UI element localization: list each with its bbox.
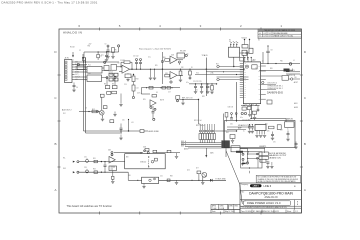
svg-text:Date:: Date: [212, 210, 216, 213]
svg-text:VD: VD [244, 63, 246, 65]
svg-text:IN R: IN R [63, 168, 66, 170]
svg-text:T. LEE: T. LEE [212, 208, 216, 210]
svg-text:(BOARD OUT): (BOARD OUT) [269, 157, 281, 160]
svg-text:R40: R40 [265, 124, 268, 126]
svg-text:1: 1 [280, 24, 282, 28]
svg-text:DAN2550 PRO MAIN REV 0.SCH-1 -: DAN2550 PRO MAIN REV 0.SCH-1 - Thu May 1… [2, 1, 98, 5]
svg-text:R8: R8 [104, 84, 106, 86]
svg-text:OR: OR [258, 71, 260, 73]
svg-text:Q3: Q3 [85, 108, 87, 110]
svg-text:1: 1 [73, 60, 74, 62]
svg-text:1 / 1: 1 / 1 [295, 211, 298, 213]
svg-text:ANALOG IN: ANALOG IN [63, 31, 82, 35]
svg-text:DG: DG [244, 93, 246, 95]
svg-text:1K: 1K [191, 67, 193, 69]
svg-text:C33: C33 [84, 167, 87, 169]
svg-text:C67: C67 [280, 130, 283, 132]
svg-text:L2: L2 [262, 61, 264, 63]
svg-text:2K2: 2K2 [63, 113, 66, 115]
svg-text:REL DRV: REL DRV [180, 51, 186, 53]
svg-text:C: C [304, 96, 307, 100]
svg-text:+15V: +15V [88, 44, 91, 46]
svg-text:B: B [259, 36, 260, 38]
svg-text:Company:: Company: [241, 184, 249, 186]
svg-text:IN L: IN L [63, 158, 66, 160]
svg-text:5: 5 [73, 70, 74, 72]
svg-text:R44: R44 [226, 132, 229, 134]
svg-text:C35: C35 [255, 68, 258, 70]
svg-text:VCC: VCC [196, 73, 199, 75]
svg-text:R19: R19 [143, 99, 146, 101]
svg-text:NO CONNECTION PROPERLY THE BOA: NO CONNECTION PROPERLY THE BOARD A FLOW [258, 176, 297, 179]
svg-text:MC: MC [244, 76, 246, 78]
svg-text:C9: C9 [271, 50, 273, 52]
svg-text:Title:: Title: [241, 190, 245, 193]
svg-text:C36: C36 [294, 77, 297, 79]
svg-text:0.7: 0.7 [264, 36, 266, 38]
svg-text:GN: GN [258, 89, 260, 91]
svg-text:DOUT_FLT x2: DOUT_FLT x2 [268, 82, 278, 84]
svg-text:BUS_A: BUS_A [181, 140, 186, 143]
svg-text:C31: C31 [84, 157, 87, 159]
svg-text:CK: CK [244, 67, 246, 69]
svg-text:BY: DAN LINE: BY: DAN LINE [253, 210, 263, 213]
svg-text:MUTE: MUTE [160, 100, 164, 102]
svg-text:0.1u: 0.1u [240, 117, 243, 119]
svg-text:Q10: Q10 [187, 170, 190, 172]
svg-text:APVD: APVD [212, 204, 217, 207]
svg-text:ORIGINAL RELEASE: ORIGINAL RELEASE [273, 32, 287, 35]
svg-text:B: B [304, 142, 306, 146]
svg-text:D. KIM: D. KIM [220, 208, 225, 210]
svg-text:6: 6 [78, 24, 80, 28]
svg-text:C21 C22 C23: C21 C22 C23 [193, 81, 202, 83]
svg-text:BUS_B: BUS_B [181, 143, 186, 145]
svg-text:4: 4 [159, 24, 161, 28]
svg-text:0.1u: 0.1u [186, 82, 189, 84]
svg-text:20K: 20K [267, 131, 270, 133]
svg-text:May 17, 2001: May 17, 2001 [225, 211, 235, 213]
svg-text:SSM2142: SSM2142 [140, 162, 146, 164]
svg-text:10K: 10K [110, 74, 113, 76]
svg-text:FB2: FB2 [88, 46, 91, 48]
svg-text:R7: R7 [123, 60, 125, 62]
svg-text:AGND DGND: AGND DGND [149, 130, 160, 133]
svg-text:C3: C3 [105, 44, 107, 46]
svg-text:AVDD: AVDD [294, 102, 298, 105]
svg-text:K2: K2 [258, 40, 260, 42]
svg-text:FL2: FL2 [88, 73, 91, 75]
svg-text:4K7: 4K7 [196, 168, 199, 170]
svg-text:J4: J4 [293, 60, 295, 62]
svg-text:R12: R12 [92, 109, 95, 111]
svg-text:LM4871: LM4871 [259, 146, 267, 148]
svg-text:A: A [54, 188, 56, 192]
svg-text:B: B [294, 186, 296, 188]
svg-text:Sheet: Sheet [287, 210, 292, 213]
svg-text:C17: C17 [168, 92, 171, 94]
svg-text:R26: R26 [270, 68, 273, 70]
svg-text:R9: R9 [112, 84, 114, 86]
svg-text:TE: TE [244, 95, 246, 97]
svg-text:C61: C61 [230, 124, 233, 126]
svg-text:C14: C14 [136, 88, 139, 90]
svg-text:C: C [54, 96, 57, 100]
svg-text:FL: FL [259, 76, 261, 78]
svg-text:FR: FR [258, 79, 260, 81]
svg-text:B: B [297, 204, 299, 206]
svg-text:C11 C12: C11 C12 [133, 56, 139, 58]
svg-text:LR: LR [244, 74, 246, 76]
svg-text:U3A: U3A [171, 54, 174, 57]
svg-text:J5: J5 [232, 143, 234, 145]
svg-text:AUX OUT 2: AUX OUT 2 [62, 109, 71, 112]
svg-text:CHKD: CHKD [220, 205, 225, 207]
svg-text:VR: VR [244, 88, 246, 90]
svg-text:1u: 1u [243, 131, 245, 133]
svg-text:DAV9876-55-D: DAV9876-55-D [267, 92, 283, 95]
svg-text:FL1: FL1 [88, 65, 91, 67]
svg-text:VC: VC [258, 84, 260, 86]
svg-text:0.5: 0.5 [264, 33, 266, 35]
svg-text:R38: R38 [170, 176, 173, 178]
svg-text:R31: R31 [93, 158, 96, 160]
svg-text:AOUT: AOUT [294, 81, 298, 84]
svg-text:2.2K: 2.2K [120, 60, 123, 62]
svg-text:RP1 10K x 7: RP1 10K x 7 [196, 125, 205, 127]
svg-text:U3B: U3B [165, 73, 168, 75]
svg-text:3: 3 [200, 24, 202, 28]
svg-text:Q8: Q8 [242, 53, 244, 55]
svg-text:C70: C70 [273, 142, 276, 144]
svg-text:R16: R16 [163, 57, 166, 59]
svg-text:DWG NO: 35-00-0125: DWG NO: 35-00-0125 [263, 211, 279, 213]
svg-text:R15: R15 [155, 65, 158, 67]
svg-text:TO BLK GND: TO BLK GND [215, 178, 226, 180]
svg-text:CHANGE C4,R10 TO V0.2 A1: CHANGE C4,R10 TO V0.2 A1 [273, 35, 293, 38]
svg-text:C8: C8 [118, 63, 120, 65]
svg-text:22K: 22K [181, 67, 184, 69]
svg-text:D: D [54, 50, 57, 54]
svg-text:This board: All switches are T: This board: All switches are TX function [67, 204, 113, 208]
svg-text:C13: C13 [124, 84, 127, 86]
svg-text:A: A [259, 32, 260, 35]
svg-text:FB1: FB1 [280, 61, 283, 63]
svg-text:DRN: DRN [229, 205, 232, 207]
svg-text:C6: C6 [76, 87, 78, 89]
svg-text:X2: X2 [258, 99, 260, 101]
svg-text:ANALOG IN: ANALOG IN [264, 196, 277, 199]
svg-text:X1: X1 [258, 94, 260, 96]
svg-text:DAHPCPQ8/1800-PRO MAIN: DAHPCPQ8/1800-PRO MAIN [249, 191, 293, 195]
svg-text:C25: C25 [122, 120, 125, 122]
svg-text:REF_OUT 2.5V: REF_OUT 2.5V [182, 98, 192, 100]
svg-text:C38 C39: C38 C39 [228, 107, 234, 109]
svg-text:A: A [304, 188, 306, 192]
svg-text:0.1u: 0.1u [101, 55, 104, 57]
svg-text:LINE 6: LINE 6 [253, 186, 259, 188]
svg-text:R6: R6 [104, 63, 106, 65]
svg-text:K1: K1 [229, 39, 231, 41]
svg-text:OUT_L: OUT_L [75, 74, 80, 76]
svg-text:B: B [54, 142, 56, 146]
svg-text:5: 5 [119, 24, 121, 28]
svg-text:J1 IN: J1 IN [65, 57, 70, 59]
svg-text:U6A: U6A [143, 146, 146, 149]
svg-text:C51: C51 [160, 176, 163, 178]
svg-text:VS: VS [244, 65, 246, 67]
svg-text:R: R [297, 201, 299, 203]
svg-text:5/7: 5/7 [268, 36, 270, 38]
svg-text:FREE POWER LOGIC V1.0: FREE POWER LOGIC V1.0 [247, 201, 281, 205]
svg-text:DO: DO [244, 72, 246, 74]
svg-text:OUTPUT L: OUTPUT L [287, 70, 295, 72]
svg-text:+5V: +5V [131, 122, 134, 124]
svg-text:R28: R28 [202, 96, 205, 98]
svg-text:TCA 05: TCA 05 [202, 54, 208, 57]
svg-text:3: 3 [73, 65, 74, 67]
svg-text:0.1u: 0.1u [148, 57, 151, 59]
svg-text:R5: R5 [115, 50, 117, 52]
svg-text:R36: R36 [128, 175, 131, 177]
svg-text:U4B: U4B [108, 150, 111, 152]
svg-text:OL: OL [258, 66, 260, 68]
svg-text:X1: X1 [196, 90, 198, 92]
svg-text:R27: R27 [216, 64, 219, 66]
svg-text:R33: R33 [93, 168, 96, 170]
svg-text:Stop amp gain 2 + 20g in 20k: Stop amp gain 2 + 20g in 20k TLE2072 [139, 47, 171, 50]
svg-text:1u: 1u [287, 129, 289, 131]
svg-text:Q5: Q5 [187, 54, 189, 56]
svg-text:MIX: MIX [126, 157, 129, 159]
svg-text:R23: R23 [253, 60, 256, 62]
svg-text:R18: R18 [136, 79, 139, 81]
svg-text:U5: U5 [156, 92, 158, 94]
svg-text:DI: DI [244, 69, 246, 71]
svg-text:GAIN: GAIN [210, 152, 213, 155]
svg-text:RS: RS [244, 78, 246, 80]
svg-text:0.47u: 0.47u [137, 93, 141, 95]
svg-text:R20 R21: R20 R21 [242, 38, 248, 40]
svg-text:LINE 6: LINE 6 [264, 185, 272, 188]
svg-text:BYPASS MODE SEL 1: BYPASS MODE SEL 1 [268, 85, 283, 88]
svg-text:AGND: AGND [294, 106, 298, 109]
svg-text:C74: C74 [259, 161, 262, 163]
svg-text:R2 10K: R2 10K [70, 47, 75, 49]
svg-text:Time: 19:58:50: Time: 19:58:50 [241, 211, 252, 213]
svg-text:Q1 Q2: Q1 Q2 [109, 71, 113, 73]
svg-text:RP1 10K x8: RP1 10K x8 [194, 120, 202, 122]
svg-text:MAIN IN: MAIN IN [286, 117, 293, 120]
svg-text:D: D [304, 50, 307, 54]
svg-text:2: 2 [240, 24, 242, 28]
svg-text:5/1: 5/1 [268, 33, 270, 35]
svg-text:ENG: ENG [235, 205, 239, 207]
svg-text:SC: SC [244, 97, 246, 99]
svg-text:C2: C2 [79, 50, 81, 52]
